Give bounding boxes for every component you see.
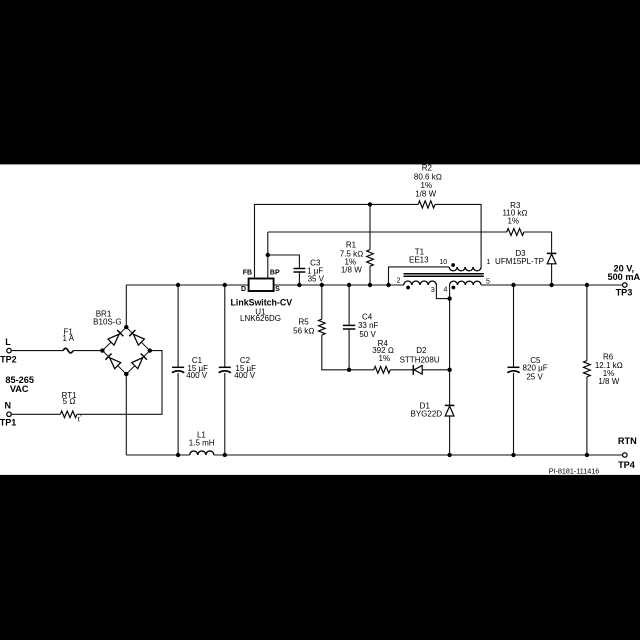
- svg-text:3: 3: [431, 287, 435, 294]
- svg-text:1: 1: [486, 259, 490, 266]
- svg-text:STTH208U: STTH208U: [400, 355, 440, 364]
- svg-text:VAC: VAC: [10, 384, 29, 394]
- svg-text:TP1: TP1: [0, 417, 16, 427]
- svg-text:1/8 W: 1/8 W: [415, 190, 436, 199]
- svg-text:N: N: [4, 401, 11, 411]
- svg-text:RTN: RTN: [618, 436, 637, 446]
- svg-text:R2: R2: [422, 164, 433, 173]
- svg-text:2: 2: [397, 277, 401, 284]
- svg-text:50 V: 50 V: [359, 330, 376, 339]
- svg-text:820 µF: 820 µF: [523, 364, 548, 373]
- svg-text:PI-8181-111416: PI-8181-111416: [549, 467, 599, 476]
- svg-text:BYG22D: BYG22D: [411, 410, 443, 419]
- svg-text:400 V: 400 V: [234, 371, 256, 380]
- svg-text:R5: R5: [298, 318, 309, 327]
- svg-text:R1: R1: [346, 240, 357, 249]
- svg-text:25 V: 25 V: [526, 372, 543, 381]
- svg-text:D2: D2: [416, 346, 427, 355]
- svg-text:1%: 1%: [379, 354, 391, 363]
- svg-text:4: 4: [444, 287, 448, 294]
- svg-text:FB: FB: [243, 270, 252, 277]
- svg-text:TP2: TP2: [0, 354, 17, 364]
- svg-text:400 V: 400 V: [186, 371, 208, 380]
- svg-text:BP: BP: [270, 270, 280, 277]
- svg-text:1 A: 1 A: [63, 334, 75, 343]
- svg-text:5 Ω: 5 Ω: [63, 397, 76, 406]
- svg-text:TP3: TP3: [616, 288, 633, 298]
- svg-text:LinkSwitch-CV: LinkSwitch-CV: [231, 298, 293, 308]
- svg-text:TP4: TP4: [618, 460, 636, 470]
- svg-text:1%: 1%: [508, 217, 520, 226]
- svg-text:56 kΩ: 56 kΩ: [293, 326, 314, 335]
- svg-text:EE13: EE13: [409, 256, 429, 265]
- svg-text:500 mA: 500 mA: [607, 272, 640, 282]
- svg-text:10: 10: [439, 259, 447, 266]
- svg-text:L: L: [5, 337, 11, 347]
- svg-text:UFM15PL-TP: UFM15PL-TP: [495, 257, 544, 266]
- svg-text:D: D: [241, 286, 246, 293]
- svg-text:33 nF: 33 nF: [358, 321, 379, 330]
- svg-text:1.5 mH: 1.5 mH: [189, 438, 215, 447]
- svg-text:LNK626DG: LNK626DG: [240, 314, 281, 323]
- svg-text:S: S: [275, 286, 280, 293]
- svg-text:5: 5: [486, 279, 490, 286]
- svg-text:1/8 W: 1/8 W: [598, 377, 619, 386]
- svg-text:B10S-G: B10S-G: [93, 317, 121, 326]
- svg-text:1/8 W: 1/8 W: [341, 266, 362, 275]
- svg-text:35 V: 35 V: [308, 275, 325, 284]
